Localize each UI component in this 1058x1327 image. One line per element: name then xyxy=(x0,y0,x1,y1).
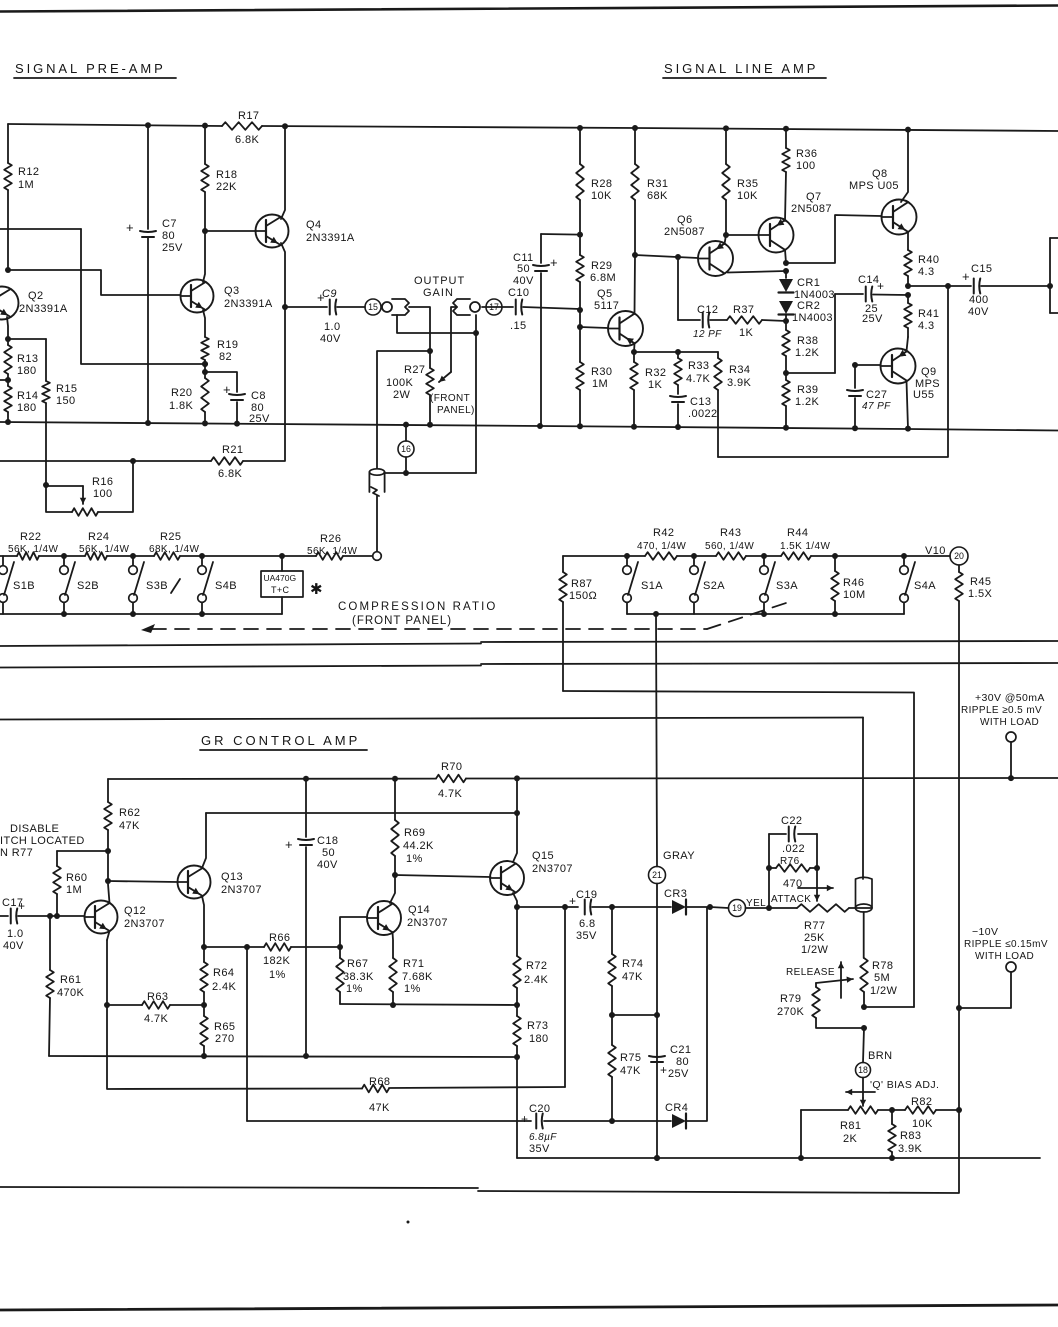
wire Q14 collector xyxy=(390,875,395,903)
svg-text:Q7: Q7 xyxy=(806,191,821,203)
svg-text:2.4K: 2.4K xyxy=(524,974,548,986)
svg-text:C9: C9 xyxy=(322,288,337,300)
label COMPRESSION RATIO xyxy=(338,601,497,627)
svg-text:R81: R81 xyxy=(840,1120,861,1132)
wire plug1 sleeve xyxy=(397,315,479,336)
svg-text:3.9K: 3.9K xyxy=(898,1143,922,1155)
resistor R70 xyxy=(436,761,466,800)
wire Q2 collector node to Q3 base xyxy=(8,270,180,295)
svg-text:R42: R42 xyxy=(653,527,674,539)
svg-text:N R77: N R77 xyxy=(0,847,33,859)
svg-text:R79: R79 xyxy=(780,993,801,1005)
terminal 18 xyxy=(856,1063,871,1078)
switch S2A xyxy=(690,556,726,614)
wire emitter node y352 xyxy=(634,349,718,355)
wire Q8 emitter xyxy=(907,232,909,250)
switch S3B xyxy=(129,556,180,614)
svg-text:ATTACK: ATTACK xyxy=(771,894,811,905)
svg-text:R34: R34 xyxy=(729,364,750,376)
svg-text:1/2W: 1/2W xyxy=(870,985,897,997)
diode CR2 xyxy=(779,300,833,324)
svg-text:1K: 1K xyxy=(648,379,663,391)
label V10 xyxy=(925,545,946,557)
svg-text:6.8M: 6.8M xyxy=(590,272,616,284)
svg-text:R21: R21 xyxy=(222,444,243,456)
capacitor C11 xyxy=(513,234,558,426)
svg-text:SIGNAL LINE AMP: SIGNAL LINE AMP xyxy=(664,61,818,76)
svg-text:R39: R39 xyxy=(797,384,818,396)
wire Q6 collector xyxy=(728,268,790,274)
svg-text:6.8K: 6.8K xyxy=(218,468,242,480)
label BRN xyxy=(868,1050,892,1062)
svg-text:470, 1/4W: 470, 1/4W xyxy=(637,541,686,552)
svg-text:T+C: T+C xyxy=(271,585,290,595)
svg-text:R65: R65 xyxy=(214,1021,235,1033)
svg-text:35V: 35V xyxy=(576,930,597,942)
svg-text:6.8K: 6.8K xyxy=(235,134,259,146)
svg-text:R36: R36 xyxy=(796,148,817,160)
wire Q7 to Q8 staircase xyxy=(786,215,881,263)
svg-text:R41: R41 xyxy=(918,308,939,320)
svg-text:R12: R12 xyxy=(18,166,39,178)
svg-text:CR3: CR3 xyxy=(664,888,687,900)
resistor R19 xyxy=(201,337,238,375)
svg-text:R66: R66 xyxy=(269,932,290,944)
svg-text:10K: 10K xyxy=(912,1118,933,1130)
svg-text:1K: 1K xyxy=(739,327,754,339)
wire left exit y380 xyxy=(0,379,8,381)
lamp LP2 xyxy=(855,718,872,959)
wire Q3 emitter xyxy=(203,310,205,337)
svg-text:100: 100 xyxy=(796,160,816,172)
svg-text:C22: C22 xyxy=(781,815,802,827)
svg-text:44.2K: 44.2K xyxy=(403,840,434,852)
terminal +30V supply xyxy=(961,692,1045,778)
svg-text:4.7K: 4.7K xyxy=(144,1013,168,1025)
wire Q9 collector xyxy=(907,337,909,351)
resistor R82 xyxy=(892,1096,959,1130)
svg-text:S1A: S1A xyxy=(641,580,663,592)
wire divider line 1 xyxy=(0,641,1058,646)
svg-text:+: + xyxy=(550,255,558,270)
resistor R63 xyxy=(107,991,207,1025)
wire R66 drop to C20 xyxy=(246,947,248,1121)
wire Q13 collector xyxy=(202,813,206,868)
wire Q12 emitter xyxy=(104,931,110,1008)
wire Q12 collector xyxy=(108,884,110,903)
wire ratio row B top xyxy=(0,553,373,559)
svg-text:15: 15 xyxy=(368,302,378,312)
resistor R46 xyxy=(831,556,865,614)
resistor R60 xyxy=(53,851,108,916)
wire bias column xyxy=(860,1028,866,1106)
svg-text:1M: 1M xyxy=(592,378,608,390)
transistor Q7 xyxy=(759,191,832,253)
wire release wiper xyxy=(816,977,853,984)
svg-text:R30: R30 xyxy=(591,366,612,378)
svg-text:RIPPLE ≤0.15mV: RIPPLE ≤0.15mV xyxy=(964,939,1048,950)
svg-text:10K: 10K xyxy=(591,190,612,202)
svg-text:180: 180 xyxy=(17,365,37,377)
svg-text:82: 82 xyxy=(219,351,232,363)
resistor R36 xyxy=(782,129,817,221)
svg-text:Q6: Q6 xyxy=(677,214,692,226)
svg-text:RELEASE: RELEASE xyxy=(786,967,835,978)
label ATTACK xyxy=(771,885,833,905)
transistor Q2 xyxy=(0,287,68,320)
wire R21 row xyxy=(0,307,285,464)
svg-text:GRAY: GRAY xyxy=(663,850,695,862)
wire Q4 collector xyxy=(281,126,285,219)
svg-text:2N3391A: 2N3391A xyxy=(19,303,68,315)
switch S4B xyxy=(198,556,237,614)
svg-text:+: + xyxy=(285,837,293,852)
resistor R75 xyxy=(608,1015,641,1124)
transistor Q13 xyxy=(178,866,262,899)
svg-text:C27: C27 xyxy=(866,389,887,401)
svg-text:R45: R45 xyxy=(970,576,991,588)
wire C12 drop xyxy=(677,257,679,320)
svg-text:R22: R22 xyxy=(20,531,41,543)
wire top supply rail xyxy=(8,122,1058,132)
svg-text:68K, 1/4W: 68K, 1/4W xyxy=(149,544,199,555)
wire Q14 base xyxy=(340,917,367,947)
label OUTPUT GAIN xyxy=(414,275,465,299)
resistor R31 xyxy=(631,128,668,258)
svg-text:2N5087: 2N5087 xyxy=(664,226,705,238)
capacitor C17 xyxy=(0,897,85,952)
transistor Q14 xyxy=(367,901,448,935)
svg-text:5117: 5117 xyxy=(594,300,619,312)
resistor R72 xyxy=(513,907,548,1005)
potentiometer R81 xyxy=(801,1106,892,1158)
svg-text:S3B: S3B xyxy=(146,580,168,592)
wire plug2 tip down xyxy=(475,315,477,473)
transistor Q3 xyxy=(181,280,273,313)
svg-text:10K: 10K xyxy=(737,190,758,202)
svg-text:1.5K 1/4W: 1.5K 1/4W xyxy=(780,541,830,552)
svg-text:40V: 40V xyxy=(317,859,338,871)
wire to R15 xyxy=(8,338,46,340)
wire divider line 2 xyxy=(0,663,1058,668)
svg-text:CR1: CR1 xyxy=(797,277,820,289)
svg-text:1/2W: 1/2W xyxy=(801,944,828,956)
capacitor C7 xyxy=(126,218,183,254)
wire Q8 collector xyxy=(901,130,908,202)
svg-text:1.0: 1.0 xyxy=(324,321,341,333)
resistor R38 xyxy=(782,321,819,376)
svg-text:R73: R73 xyxy=(527,1020,548,1032)
svg-text:R38: R38 xyxy=(797,335,818,347)
svg-text:R16: R16 xyxy=(92,476,113,488)
svg-text:R70: R70 xyxy=(441,761,462,773)
svg-text:S2A: S2A xyxy=(703,580,725,592)
svg-text:S4B: S4B xyxy=(215,580,237,592)
wire Q9 base xyxy=(852,362,881,368)
svg-text:56K, 1/4W: 56K, 1/4W xyxy=(307,546,357,557)
svg-text:25V: 25V xyxy=(162,242,183,254)
svg-text:1.2K: 1.2K xyxy=(795,347,819,359)
svg-text:Q4: Q4 xyxy=(306,219,321,231)
wire ratio row A bottom xyxy=(627,611,904,617)
resistor R71 xyxy=(389,958,433,1005)
svg-text:+: + xyxy=(521,1112,528,1126)
capacitor C10 xyxy=(482,287,580,332)
svg-text:C10: C10 xyxy=(508,287,529,299)
svg-text:2N3391A: 2N3391A xyxy=(224,298,273,310)
svg-text:+30V @50mA: +30V @50mA xyxy=(975,692,1045,704)
resistor R68 xyxy=(362,1076,565,1114)
svg-text:47 PF: 47 PF xyxy=(862,401,891,412)
svg-text:R82: R82 xyxy=(911,1096,932,1108)
svg-text:1%: 1% xyxy=(269,969,286,981)
wire divider line 3 xyxy=(0,718,863,720)
transistor Q9 xyxy=(881,349,941,402)
svg-text:40V: 40V xyxy=(968,306,989,318)
wire Q7 collector xyxy=(783,250,789,267)
svg-text:+: + xyxy=(962,269,970,284)
jack plug J1 xyxy=(382,299,409,315)
svg-text:35V: 35V xyxy=(529,1143,550,1155)
switch S4A xyxy=(900,556,937,614)
svg-text:PANEL): PANEL) xyxy=(437,405,475,416)
svg-text:R71: R71 xyxy=(403,958,424,970)
svg-text:50: 50 xyxy=(517,263,530,275)
svg-text:COMPRESSION RATIO: COMPRESSION RATIO xyxy=(338,601,497,613)
resistor R21 xyxy=(211,444,243,480)
svg-text:OUTPUT: OUTPUT xyxy=(414,275,465,287)
svg-text:R62: R62 xyxy=(119,807,140,819)
svg-text:6.8: 6.8 xyxy=(579,918,596,930)
wire C14 drop xyxy=(834,294,836,373)
svg-text:180: 180 xyxy=(529,1033,549,1045)
svg-text:+: + xyxy=(660,1063,667,1077)
svg-text:R40: R40 xyxy=(918,254,939,266)
svg-text:BRN: BRN xyxy=(868,1050,892,1062)
transistor Q5 xyxy=(594,288,643,346)
svg-text:47K: 47K xyxy=(369,1102,390,1114)
terminal 21 xyxy=(649,867,666,884)
svg-text:20: 20 xyxy=(954,551,964,561)
wire Q4 base xyxy=(205,230,256,232)
wire Q15 collector xyxy=(513,778,517,862)
resistor R83 xyxy=(888,1107,922,1158)
svg-text:R77: R77 xyxy=(804,920,825,932)
svg-text:150Ω: 150Ω xyxy=(569,590,597,602)
wire left exit y229 xyxy=(0,228,81,230)
svg-text:Q15: Q15 xyxy=(532,850,554,862)
svg-text:68K: 68K xyxy=(647,190,668,202)
terminal 19 xyxy=(729,898,767,917)
svg-text:R26: R26 xyxy=(320,533,341,545)
resistor R15 xyxy=(42,339,77,485)
wire C7 column xyxy=(147,125,149,423)
svg-text:47K: 47K xyxy=(119,820,140,832)
wire Q3 collector xyxy=(203,231,205,282)
resistor R76 xyxy=(769,856,817,890)
svg-text:CR4: CR4 xyxy=(665,1102,688,1114)
diode CR4 xyxy=(612,908,707,1129)
terminal 16 xyxy=(398,425,414,476)
wire R78 bottom to V1 xyxy=(864,1006,914,1008)
svg-text:R46: R46 xyxy=(843,577,864,589)
svg-text:R25: R25 xyxy=(160,531,181,543)
wire R74 node to C21 xyxy=(612,1014,657,1016)
svg-text:R29: R29 xyxy=(591,260,612,272)
svg-text:C13: C13 xyxy=(690,396,711,408)
capacitor C15 xyxy=(908,263,1053,318)
svg-text:R61: R61 xyxy=(60,974,81,986)
svg-text:C14: C14 xyxy=(858,274,879,286)
svg-text:100K: 100K xyxy=(386,377,414,389)
resistor R78 xyxy=(860,958,897,1031)
svg-text:R33: R33 xyxy=(688,360,709,372)
svg-text:1M: 1M xyxy=(66,884,82,896)
svg-text:V10: V10 xyxy=(925,545,946,557)
svg-text:Q8: Q8 xyxy=(872,168,887,180)
wire R45 drop to bias net xyxy=(0,601,962,1193)
svg-text:182K: 182K xyxy=(263,955,291,967)
svg-text:R43: R43 xyxy=(720,527,741,539)
wire Q6 emitter up xyxy=(725,235,727,244)
svg-text:3.9K: 3.9K xyxy=(727,377,751,389)
wire GR ground rail xyxy=(517,1155,1040,1161)
svg-text:S4A: S4A xyxy=(914,580,936,592)
wire Q13 base xyxy=(108,881,178,882)
resistor R39 xyxy=(782,373,819,428)
svg-text:R37: R37 xyxy=(733,304,754,316)
wire emitter resistor node xyxy=(340,1002,520,1008)
svg-text:UA470G: UA470G xyxy=(264,573,297,583)
svg-text:R60: R60 xyxy=(66,872,87,884)
svg-text:R75: R75 xyxy=(620,1052,641,1064)
svg-text:25V: 25V xyxy=(668,1068,689,1080)
wire plug2 sleeve to wiper xyxy=(439,307,457,382)
svg-text:1M: 1M xyxy=(18,179,34,191)
wire lamp1 top xyxy=(384,472,476,474)
svg-text:50: 50 xyxy=(322,847,335,859)
lamp LP1 xyxy=(369,469,384,552)
svg-text:RIPPLE ≥0.5 mV: RIPPLE ≥0.5 mV xyxy=(961,705,1042,716)
wire Q5 emitter xyxy=(631,344,637,356)
resistor R44 xyxy=(780,527,830,560)
wire left rail drop xyxy=(5,124,11,273)
svg-text:C20: C20 xyxy=(529,1103,550,1115)
wire feedback y457 xyxy=(718,286,948,457)
svg-text:4.7K: 4.7K xyxy=(438,788,462,800)
svg-text:2N3707: 2N3707 xyxy=(124,918,165,930)
wire attack wiper xyxy=(814,868,820,901)
svg-text:(FRONT PANEL): (FRONT PANEL) xyxy=(352,615,452,627)
svg-text:56K, 1/4W: 56K, 1/4W xyxy=(79,544,129,555)
capacitor C14 xyxy=(835,274,908,325)
svg-text:CR2: CR2 xyxy=(797,300,820,312)
capacitor C21 xyxy=(649,1044,691,1080)
svg-text:21: 21 xyxy=(652,870,662,880)
capacitor C18 xyxy=(285,779,338,1056)
resistor R30 xyxy=(576,327,612,426)
svg-text:150: 150 xyxy=(56,395,76,407)
wire Q4 emitter xyxy=(281,243,288,310)
wire CR3 node to pot xyxy=(710,905,772,911)
wire GRAY column xyxy=(654,614,660,1161)
switch S1A xyxy=(623,556,664,614)
resistor R25 xyxy=(149,531,199,560)
transistor Q15 xyxy=(490,850,573,895)
wire ratio row B bottom xyxy=(0,611,282,617)
resistor R62 xyxy=(104,779,140,884)
svg-text:2.4K: 2.4K xyxy=(212,981,236,993)
svg-text:Q14: Q14 xyxy=(408,904,430,916)
border bottom xyxy=(0,1305,1058,1310)
svg-text:R13: R13 xyxy=(17,353,38,365)
svg-text:4.7K: 4.7K xyxy=(686,373,710,385)
svg-text:4.3: 4.3 xyxy=(918,320,935,332)
svg-text:C21: C21 xyxy=(670,1044,691,1056)
resistor R65 xyxy=(200,1005,235,1056)
capacitor C22 xyxy=(766,815,820,908)
resistor R34 xyxy=(714,352,751,457)
svg-text:R24: R24 xyxy=(88,531,109,543)
resistor R18 xyxy=(201,126,237,234)
svg-text:270K: 270K xyxy=(777,1006,805,1018)
svg-text:R32: R32 xyxy=(645,367,666,379)
svg-text:Q13: Q13 xyxy=(221,871,243,883)
svg-text:100: 100 xyxy=(93,488,113,500)
svg-text:MPS U05: MPS U05 xyxy=(849,180,899,192)
svg-text:+: + xyxy=(223,382,231,397)
resistor R67 xyxy=(336,947,374,1004)
svg-text:25V: 25V xyxy=(862,313,883,325)
svg-text:(FRONT: (FRONT xyxy=(430,393,470,404)
svg-text:R18: R18 xyxy=(216,169,237,181)
svg-text:400: 400 xyxy=(969,294,989,306)
svg-text:1.2K: 1.2K xyxy=(795,396,819,408)
svg-text:1.5X: 1.5X xyxy=(968,588,992,600)
svg-text:C8: C8 xyxy=(251,390,266,402)
capacitor C8 xyxy=(205,372,270,425)
svg-text:180: 180 xyxy=(17,402,37,414)
resistor R61 xyxy=(46,916,84,1056)
switch S2B xyxy=(60,556,99,614)
resistor R33 xyxy=(674,352,710,394)
resistor R20 xyxy=(169,372,209,423)
svg-text:18: 18 xyxy=(858,1065,868,1075)
border top xyxy=(0,6,1058,12)
wire Q7 base xyxy=(726,234,758,236)
svg-text:80: 80 xyxy=(162,230,175,242)
svg-text:.15: .15 xyxy=(510,320,527,332)
svg-text:2W: 2W xyxy=(393,389,411,401)
svg-text:25K: 25K xyxy=(804,932,825,944)
svg-text:40V: 40V xyxy=(320,333,341,345)
svg-text:6.8µF: 6.8µF xyxy=(529,1132,557,1143)
title SIGNAL LINE AMP xyxy=(663,61,826,78)
svg-text:560, 1/4W: 560, 1/4W xyxy=(705,541,754,552)
transistor Q12 xyxy=(85,901,165,934)
title GR CONTROL AMP xyxy=(200,733,367,750)
wire Q15 base xyxy=(395,875,491,877)
wire dashed front-panel line xyxy=(141,603,786,633)
svg-text:47K: 47K xyxy=(622,971,643,983)
svg-text:470K: 470K xyxy=(57,987,85,999)
svg-text:+: + xyxy=(126,220,134,235)
svg-text:C17: C17 xyxy=(2,897,23,909)
wire Q15 emitter xyxy=(513,893,520,910)
svg-text:R14: R14 xyxy=(17,390,38,402)
svg-text:WITH LOAD: WITH LOAD xyxy=(980,717,1039,728)
capacitor C12 xyxy=(678,304,727,340)
